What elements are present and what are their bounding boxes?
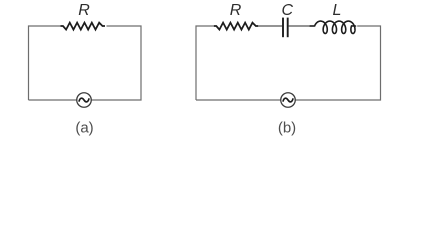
wire: (b) top-right + right segment — [295, 26, 380, 100]
svg-text:R: R — [230, 2, 242, 19]
circuit (b) loop wires — [196, 26, 381, 100]
wire: (b) bottom-left segment — [196, 99, 281, 101]
wire: (a) bottom-left segment — [29, 99, 77, 101]
svg-text:L: L — [333, 2, 342, 19]
wire: resistor to capacitor (b) — [258, 25, 282, 27]
inductor L (circuit b) — [310, 21, 355, 33]
svg-text:(b): (b) — [278, 119, 296, 136]
resistor R (circuit a) — [61, 23, 105, 30]
svg-text:R: R — [78, 2, 90, 19]
svg-text:(a): (a) — [75, 119, 93, 136]
circuit (a) loop wires — [29, 26, 142, 100]
resistor R (circuit b) — [214, 23, 258, 30]
wire: (a) top-right + right segment — [91, 26, 141, 100]
wire: (a) left + top-left segment — [29, 26, 61, 100]
svg-text:C: C — [282, 2, 294, 19]
wire: (b) left + top-left segment — [196, 26, 214, 100]
AC source (circuit a) — [77, 93, 92, 108]
AC source (circuit b) — [281, 93, 296, 108]
wire: capacitor to inductor (b) — [289, 25, 314, 27]
capacitor C (circuit b) — [283, 18, 288, 38]
